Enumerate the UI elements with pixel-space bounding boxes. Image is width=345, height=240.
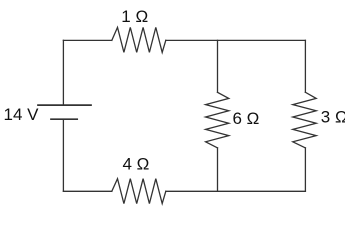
resistor R4 3 ohm (right vertical zigzag) bbox=[293, 92, 316, 148]
wire middle branch top: top wire down to 6-ohm bbox=[217, 40, 219, 92]
svg-text:3 Ω: 3 Ω bbox=[321, 108, 345, 127]
resistor R3 6 ohm (middle vertical zigzag) bbox=[206, 92, 229, 148]
wire left: top-left corner down to battery bbox=[62, 40, 64, 105]
svg-text:14 V: 14 V bbox=[4, 105, 40, 124]
wire right branch bottom: 3-ohm down to bottom-right corner bbox=[304, 148, 306, 191]
wire right branch top: top-right corner down to 3-ohm bbox=[304, 40, 306, 92]
wire top-left: left corner to 1-ohm resistor bbox=[63, 39, 111, 41]
wire bottom-left: corner to 4-ohm resistor bbox=[63, 190, 111, 192]
battery 14V long plate (positive terminal) bbox=[38, 104, 91, 106]
wire left: battery down to bottom-left corner bbox=[62, 119, 64, 191]
wire bottom-right: 4-ohm to bottom-right corner bbox=[166, 190, 306, 192]
resistor R2 4 ohm (bottom horizontal zigzag) bbox=[112, 179, 166, 204]
svg-text:4 Ω: 4 Ω bbox=[123, 155, 150, 174]
battery 14V short plate (negative terminal) bbox=[51, 118, 77, 120]
resistor R1 1 ohm (top horizontal zigzag) bbox=[112, 27, 166, 52]
wire middle branch bottom: 6-ohm down to bottom wire bbox=[217, 148, 219, 191]
svg-text:1 Ω: 1 Ω bbox=[121, 7, 148, 26]
wire top-right: 1-ohm to top-right corner bbox=[166, 39, 306, 41]
svg-text:6 Ω: 6 Ω bbox=[233, 109, 260, 128]
